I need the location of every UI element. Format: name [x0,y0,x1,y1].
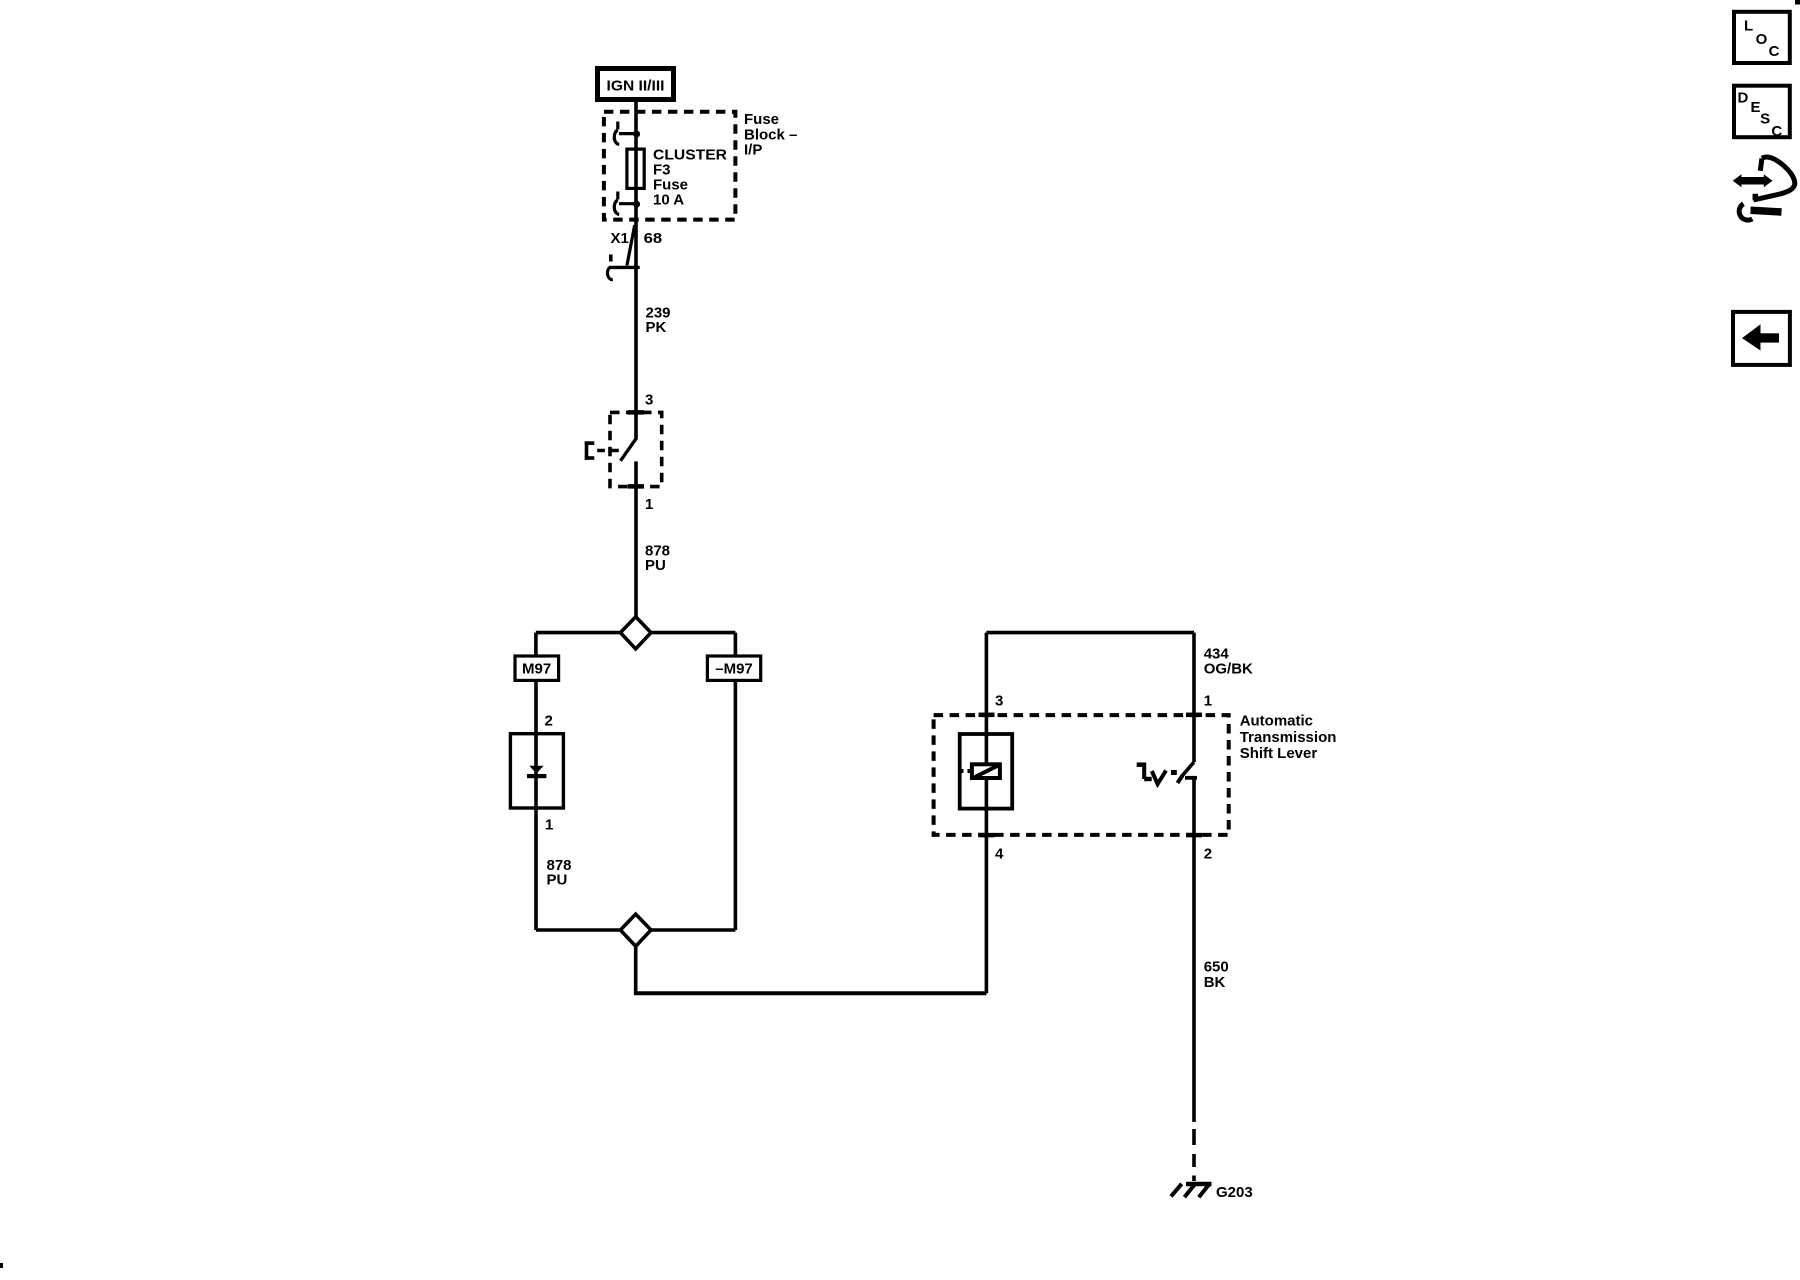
DESC nav box [1734,86,1790,140]
svg-text:PU: PU [645,557,666,574]
svg-text:O: O [1756,31,1768,48]
wire to M97 [534,633,538,656]
svg-text:S: S [1760,110,1770,127]
wire label 878 PU upper [645,543,670,575]
pin tick 2 [1186,833,1202,838]
wire dashed to ground [1192,1129,1196,1181]
wire horizontal bottom run to shift lever [634,991,987,995]
svg-text:10 A: 10 A [653,192,684,209]
ground G203 [1171,1184,1253,1201]
svg-text:PU: PU [547,872,568,889]
fuse block dashed box [604,112,736,220]
svg-text:–M97: –M97 [715,661,753,678]
diode symbol [527,766,546,778]
svg-text:1: 1 [645,496,653,513]
fuse CLUSTER F3 10A [627,149,644,188]
pin tick 3 [979,713,995,718]
wire through resistor [985,715,989,835]
shift lever dashed box [934,715,1229,835]
svg-text:4: 4 [995,846,1004,863]
wire label 239 PK [646,304,671,336]
wire to -M97 [734,633,738,656]
variable resistor element [959,764,1000,778]
svg-text:PK: PK [646,319,667,336]
fuse value label [653,147,727,209]
svg-text:Automatic: Automatic [1240,713,1313,730]
splice S lower (diamond) [620,914,651,946]
connector terminal bottom (fuse block out) [614,192,640,215]
switch blade (shift lever, open) [1178,762,1195,783]
wire 434 OG/BK vertical [1192,633,1196,762]
pin tick 3 [628,410,644,415]
svg-text:1: 1 [1204,693,1212,710]
wire horizontal upper branch [536,631,736,635]
wire left branch through diode to lower splice [534,682,538,930]
wire label 434 OG/BK [1204,645,1253,677]
brake pedal actuator bracket [585,441,621,460]
svg-text:E: E [1751,99,1761,116]
switch fixed contact [1185,776,1197,780]
svg-text:Shift Lever: Shift Lever [1240,745,1318,762]
switch blade (stop lamp switch, open) [621,439,637,461]
svg-text:1: 1 [545,817,553,834]
power label box IGN II/III [598,69,674,100]
svg-text:2: 2 [1204,846,1212,863]
wire from lower splice down [634,946,638,993]
svg-text:IGN II/III: IGN II/III [607,78,665,95]
net box -M97 [707,656,760,680]
back arrow nav box [1733,312,1790,365]
svg-text:2: 2 [545,713,553,730]
pin tick 1 [628,484,644,489]
diode D1 module box [510,734,563,808]
svg-text:3: 3 [645,392,653,409]
svg-text:Transmission: Transmission [1240,729,1337,746]
svg-text:M97: M97 [522,661,551,678]
svg-text:X1: X1 [611,230,629,247]
wire 650 BK vertical [1192,778,1196,1122]
wire label 878 PU lower [547,857,572,889]
svg-text:OG/BK: OG/BK [1204,660,1253,677]
schematic tools icon (arrow + wrench) [1733,157,1795,220]
pin tick 4 [979,833,995,838]
pin tick 1 [1186,713,1202,718]
wire 239 PK main vertical from IGN to stop lamp switch [634,102,638,440]
resistor module outer box [960,734,1013,809]
wire right branch -M97 to lower splice [734,682,738,930]
page corner mark top right [1795,0,1800,5]
wire label 650 BK [1204,959,1229,991]
stop lamp switch dashed box [610,412,662,486]
svg-text:L: L [1744,18,1753,35]
svg-text:68: 68 [644,230,663,247]
svg-text:3: 3 [995,693,1003,710]
component label shift lever [1240,713,1337,763]
svg-text:D: D [1738,89,1749,106]
splice S upper (diamond) [620,617,651,649]
svg-text:BK: BK [1204,974,1226,991]
svg-text:C: C [1769,43,1780,60]
connector terminal top (fuse block in) [614,122,640,145]
shift lever switch actuator symbol [1137,763,1177,785]
wire riser to shift lever pin 4 [985,835,989,993]
svg-text:I/P: I/P [744,142,762,159]
wire jumper loop pin3 to pin1 [986,631,1194,635]
wire 878 PU from switch pin 1 to splice [634,461,638,617]
page corner mark bottom left [0,1263,3,1268]
wire horizontal lower branch [536,928,735,932]
net box M97 [515,656,559,680]
LOC nav box [1734,12,1790,63]
connector X1 pin 68 [607,225,662,280]
fuse block name label [744,111,797,159]
svg-text:G203: G203 [1216,1184,1253,1201]
svg-text:C: C [1771,123,1782,140]
